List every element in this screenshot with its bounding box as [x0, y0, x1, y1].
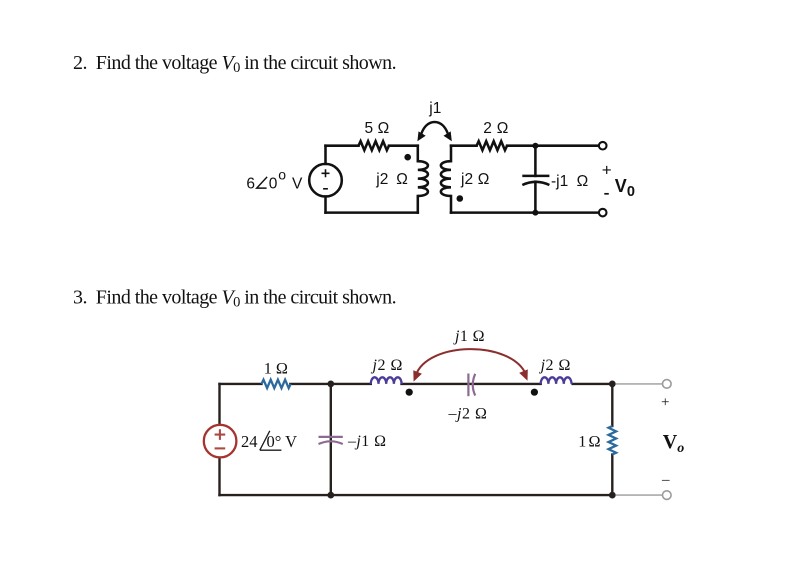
capacitor C1 curved plate — [522, 182, 549, 185]
inductor L1 vertical line bottom — [417, 196, 420, 213]
source minus sign — [323, 188, 328, 190]
wire: left vertical bottom — [218, 457, 220, 495]
svg-text:6: 6 — [246, 176, 255, 193]
wire: source top lead — [324, 146, 327, 164]
svg-text:–j1 Ω: –j1 Ω — [347, 433, 386, 450]
svg-text:0° V: 0° V — [267, 432, 298, 451]
wire: right vertical top — [611, 384, 613, 426]
wire: right loop bottom — [451, 211, 599, 214]
svg-text:0: 0 — [269, 176, 278, 193]
capacitor -j2 straight plate — [467, 374, 469, 397]
terminal circle bottom gray — [663, 491, 672, 500]
source2 plus sign — [215, 429, 226, 448]
voltage source VS1 circle — [309, 164, 342, 197]
svg-text:+: + — [602, 160, 612, 179]
svg-text:2: 2 — [483, 120, 492, 137]
node dot4 (inductor2 dot) — [531, 389, 538, 396]
wire: left vertical top — [218, 384, 220, 425]
svg-text:V: V — [292, 176, 303, 193]
svg-text:Ω: Ω — [276, 360, 288, 378]
svg-text:Ω: Ω — [478, 171, 490, 188]
svg-text:Ω: Ω — [396, 171, 408, 188]
voltage source VS2 circle — [204, 425, 237, 458]
capacitor -j1 curved plate — [319, 441, 343, 444]
label 24 angle 0 V — [241, 432, 297, 451]
terminal bottom circle — [599, 209, 607, 217]
coupling arrowhead left 2 — [413, 370, 422, 381]
svg-text:–: – — [661, 472, 670, 488]
junction node bottom (cap) — [532, 210, 538, 216]
resistor 5 ohm zigzag — [359, 141, 389, 150]
wire: right vertical bottom — [611, 455, 613, 496]
coupling arrowhead left — [417, 131, 425, 141]
svg-text:j2 Ω: j2 Ω — [539, 357, 571, 374]
wire: left loop bottom — [326, 211, 418, 214]
source plus sign — [322, 169, 330, 189]
svg-text:1: 1 — [578, 433, 586, 451]
inductor L1 vertical line top — [417, 146, 420, 162]
svg-text:1: 1 — [264, 360, 272, 378]
svg-text:2. Find the voltage V0 in the: 2. Find the voltage V0 in the circuit sh… — [73, 52, 396, 76]
inductor L2 vertical line top — [450, 146, 453, 162]
svg-text:+: + — [661, 395, 669, 411]
svg-text:Ω: Ω — [497, 120, 509, 137]
source2 minus sign — [215, 447, 226, 449]
resistor R1 1 ohm blue zigzag — [262, 380, 291, 388]
svg-text:j2: j2 — [460, 171, 473, 188]
wire: bottom — [220, 494, 613, 496]
svg-text:Vo: Vo — [663, 431, 684, 456]
wire: after R1 to node1 — [290, 383, 371, 385]
node dot3 (inductor1 dot) — [406, 389, 413, 396]
capacitor -j2 curved plate — [473, 374, 475, 396]
inductor j2 left purple — [371, 377, 402, 384]
wire: left loop top left segment — [326, 144, 359, 147]
gray lead top — [616, 383, 663, 385]
wire: between inductor1 and inductor2 — [402, 383, 541, 385]
svg-text:j1: j1 — [428, 100, 441, 117]
inductor j2 right purple — [541, 377, 572, 384]
svg-text:j2 Ω: j2 Ω — [371, 357, 403, 374]
junction top node1 — [327, 381, 334, 388]
svg-text:o: o — [278, 166, 286, 182]
svg-text:Ω: Ω — [589, 433, 601, 451]
svg-text:24: 24 — [241, 432, 258, 451]
svg-text:j1 Ω: j1 Ω — [453, 328, 485, 345]
terminal circle top gray — [663, 380, 672, 389]
capacitor -j1 straight plate — [319, 436, 343, 438]
angle symbol — [257, 177, 267, 188]
wire: source bottom lead — [324, 197, 327, 213]
problem 3 statement — [73, 287, 396, 311]
coupling arrowhead right — [444, 131, 452, 141]
coupling arrowhead right 2 — [519, 369, 528, 380]
junction node top (cap) — [532, 143, 538, 149]
capacitor C1 top plate — [522, 175, 549, 178]
svg-text:3. Find the voltage V0 in the: 3. Find the voltage V0 in the circuit sh… — [73, 287, 396, 311]
svg-text:Ω: Ω — [577, 173, 589, 190]
coupling arc j1 — [421, 122, 448, 135]
svg-text:5: 5 — [365, 120, 374, 137]
inductor L2 vertical line bottom — [450, 196, 453, 213]
gray lead bottom — [616, 494, 663, 496]
resistor 2 ohm zigzag — [477, 141, 507, 150]
svg-text:Ω: Ω — [378, 120, 390, 137]
wire: cap -j1 branch — [330, 384, 332, 495]
node dot2 (L2) — [457, 195, 464, 202]
problem 2 statement — [73, 52, 396, 76]
label 6 angle 0 V — [246, 166, 303, 192]
coupling arc j1 ohm dark red — [416, 349, 526, 376]
wire: right loop top left segment — [451, 144, 477, 147]
node dot1 (L1) — [404, 154, 411, 161]
wire: top left segment — [220, 383, 262, 385]
wire: after inductor2 to right — [573, 383, 613, 385]
inductor L1 coil — [418, 161, 428, 196]
wire: right loop top right segment — [507, 144, 599, 147]
resistor 1 ohm right blue vertical zigzag — [609, 426, 617, 455]
junction bottom right — [609, 492, 616, 499]
angle slash — [260, 431, 282, 450]
wire: left loop top right segment — [389, 144, 418, 147]
svg-text:-j1: -j1 — [551, 173, 568, 190]
svg-text:V0: V0 — [615, 176, 635, 200]
terminal top circle — [599, 142, 607, 150]
svg-text:–j2 Ω: –j2 Ω — [448, 406, 488, 423]
capacitor C1 bottom lead — [534, 182, 537, 213]
svg-text:j2: j2 — [375, 171, 388, 188]
junction bottom node1 — [327, 492, 334, 499]
capacitor C1 top lead — [534, 146, 537, 176]
junction top right — [609, 381, 616, 388]
inductor L2 coil — [441, 161, 451, 196]
